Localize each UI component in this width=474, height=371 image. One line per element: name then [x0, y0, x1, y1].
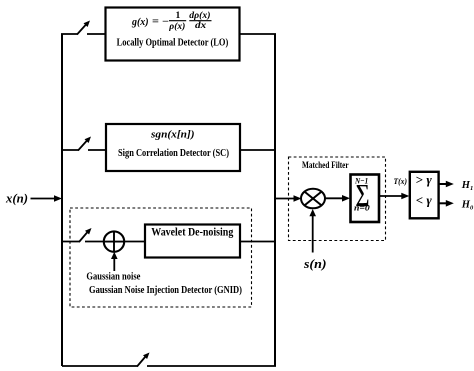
wire bottom left: [62, 365, 138, 367]
switch S2: [78, 137, 91, 151]
svg-text:Locally Optimal Detector (LO): Locally Optimal Detector (LO): [117, 36, 229, 48]
svg-text:ρ(x): ρ(x): [168, 21, 185, 32]
wire branch2 right: [88, 149, 107, 151]
block summation: [351, 175, 380, 223]
svg-text:s(n): s(n): [303, 256, 327, 271]
wire branch3 left: [61, 241, 80, 243]
wire branch1 output: [240, 33, 277, 35]
wire gaussian noise arrow: [111, 252, 118, 271]
switch S4: [137, 353, 150, 367]
wire summation to comparator: [379, 193, 409, 200]
svg-text:1: 1: [176, 11, 181, 21]
dashed box GNID: [70, 208, 252, 307]
svg-text:g(x): g(x): [131, 16, 148, 28]
svg-text:< γ: < γ: [416, 193, 433, 207]
wire junction to wavelet: [125, 241, 147, 243]
svg-text:n=0: n=0: [354, 203, 371, 213]
wire left bus: [61, 34, 63, 367]
wire branch3 output: [240, 241, 276, 243]
wire bottom right: [147, 365, 276, 367]
wire H1 output: [439, 181, 454, 188]
block SC detector U2: [106, 124, 240, 171]
label LO formula: [131, 10, 211, 32]
wire branch2 left: [61, 149, 79, 151]
block comparator: [410, 172, 439, 219]
wire s(n) arrow: [309, 209, 316, 253]
wire branch2 output: [240, 149, 276, 151]
switch S1: [77, 21, 90, 35]
dashed box Matched Filter: [289, 157, 386, 241]
wire right bus: [274, 34, 276, 367]
wire bus to multiplier: [274, 195, 302, 202]
svg-text:Wavelet De-noising: Wavelet De-noising: [151, 225, 233, 239]
svg-text:> γ: > γ: [416, 173, 433, 187]
svg-text:Sign Correlation Detector (SC): Sign Correlation Detector (SC): [118, 147, 229, 159]
wire branch1 left: [61, 33, 78, 35]
svg-text:T(x): T(x): [394, 176, 408, 186]
wire branch3 mid: [85, 241, 105, 243]
multiplier: [301, 189, 325, 209]
svg-text:Matched Filter: Matched Filter: [302, 161, 349, 171]
block LO detector U1: [106, 8, 240, 61]
wire x(n) input arrow: [31, 195, 63, 202]
svg-text:Gaussian Noise Injection Detec: Gaussian Noise Injection Detector (GNID): [89, 285, 242, 296]
wire branch1 right: [87, 33, 106, 35]
summing junction: [104, 231, 125, 252]
switch S3: [79, 228, 92, 242]
svg-text:= −: = −: [152, 17, 169, 28]
wire multiplier to summation: [325, 195, 350, 202]
svg-text:dρ(x): dρ(x): [189, 10, 210, 21]
block Wavelet De-noising U3: [145, 225, 240, 258]
svg-text:x(n): x(n): [5, 190, 28, 205]
svg-text:dx: dx: [195, 21, 206, 31]
svg-text:sgn(x[n]): sgn(x[n]): [150, 129, 195, 141]
svg-text:Gaussian noise: Gaussian noise: [86, 272, 140, 283]
wire H0 output: [439, 200, 454, 207]
